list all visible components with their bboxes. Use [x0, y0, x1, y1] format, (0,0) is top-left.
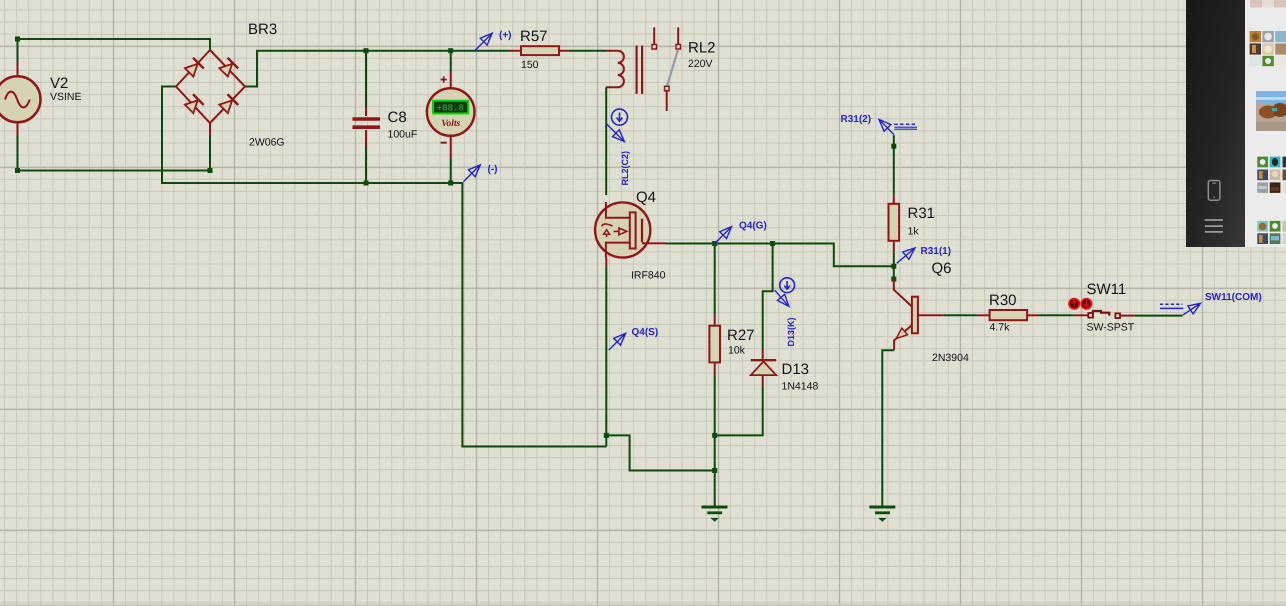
wire Q4 source down [605, 258, 607, 267]
svg-text:IRF840: IRF840 [631, 270, 666, 282]
svg-text:V2: V2 [50, 75, 68, 92]
wire relay coil to Q4 drain [605, 87, 607, 195]
wire bridge bottom pin stub [209, 123, 211, 136]
resistor R31 [889, 204, 900, 241]
Q4 substrate arrow [614, 230, 620, 232]
current probe on D13 wire [780, 278, 795, 293]
wire SW11 to terminal [1120, 315, 1135, 317]
wire V2 bottom pin stub [17, 123, 19, 137]
svg-text:(-): (-) [488, 164, 498, 175]
V2 sine symbol [5, 92, 30, 108]
resistor R31 wires [893, 135, 895, 194]
terminal R31(2) dashed symbol [894, 123, 917, 125]
node ground rail [712, 468, 717, 473]
wire D13 from gate node [763, 246, 773, 350]
voltmeter body [427, 88, 475, 136]
svg-text:R31: R31 [908, 205, 936, 222]
svg-text:RL2: RL2 [688, 40, 716, 57]
node at bridge bottom rail junction [208, 168, 213, 173]
node R31 top [891, 144, 896, 149]
switch SW11 blade [1093, 311, 1109, 316]
resistor R30 right stub [1027, 314, 1039, 316]
thumbnail grid 2 [1257, 157, 1286, 193]
svg-text:R30: R30 [989, 292, 1017, 309]
svg-text:150: 150 [521, 59, 539, 71]
svg-text:VSINE: VSINE [50, 91, 82, 103]
capacitor C8 plates [353, 119, 381, 127]
transistor Q6 collector wire [894, 279, 912, 306]
resistor R57 [521, 46, 559, 55]
node at V2 bottom corner [15, 168, 20, 173]
Q4 channel bar [630, 212, 636, 248]
svg-text:Volts: Volts [441, 119, 460, 129]
node R27 bottom rail [712, 433, 717, 438]
bridge BR3 diamond [176, 50, 245, 123]
svg-text:C8: C8 [388, 109, 407, 126]
diode D13 cathode bar [751, 359, 776, 361]
relay arm pin square [665, 86, 670, 91]
probe arrow D13(K) [775, 290, 788, 305]
svg-text:SW-SPST: SW-SPST [1087, 322, 1135, 334]
svg-text:100uF: 100uF [388, 129, 418, 141]
relay RL2 contact stub right [677, 27, 679, 44]
node gate/D13 [770, 241, 775, 246]
thumbnail grid 3 [1257, 221, 1286, 244]
wire Q4 gate [651, 242, 666, 244]
bridge diode top-right [218, 58, 238, 78]
voltmeter plus sign [441, 76, 447, 82]
node R31 bottom / gate net [891, 264, 896, 269]
relay pin square left [652, 45, 657, 50]
svg-text:4.7k: 4.7k [990, 322, 1011, 334]
SW11 toggle button up [1069, 299, 1079, 309]
svg-text:10k: 10k [728, 345, 746, 357]
svg-text:D13: D13 [782, 361, 810, 378]
node C8 top [364, 48, 369, 53]
voltmeter minus sign [441, 142, 447, 144]
bottom window edge [0, 605, 1286, 606]
svg-text:R31(2): R31(2) [841, 114, 872, 125]
svg-text:BR3: BR3 [248, 21, 277, 38]
diode D13 cathode stub [762, 350, 764, 360]
transistor Q6 bar [912, 297, 918, 334]
relay RL2 core bars [637, 46, 643, 94]
svg-text:Q4(G): Q4(G) [739, 221, 767, 232]
bridge diode bottom-left [184, 94, 204, 114]
switch SW11 left pin [1088, 313, 1093, 318]
label arrow R31(1) [897, 249, 914, 263]
terminal arrow SW11(COM) [1183, 304, 1199, 315]
SW11 toggle button down [1081, 299, 1091, 309]
wire D13 anode to rail [717, 386, 763, 435]
voltmeter wires [450, 51, 452, 183]
resistor R27 wires [714, 246, 716, 315]
svg-text:1N4148: 1N4148 [782, 381, 819, 393]
wire R30 to SW11 [1039, 314, 1073, 316]
wire V2 top pin stub [17, 62, 19, 77]
svg-text:R57: R57 [520, 28, 548, 45]
label arrow Q4(S) [609, 334, 625, 350]
diode D13 triangle [751, 361, 776, 375]
thumbnail column background [1245, 0, 1286, 247]
label arrow Q4(G) [715, 228, 731, 244]
relay switch arm [667, 50, 678, 87]
svg-text:1k: 1k [908, 226, 920, 238]
svg-text:+88.8: +88.8 [437, 102, 465, 113]
terminal SW11(COM) dashed symbol [1160, 303, 1182, 305]
Q4 gate bar [641, 219, 643, 243]
diode D13 anode stub [762, 375, 764, 386]
Q4 body-diode mark [602, 224, 613, 226]
node C8 bottom [364, 181, 369, 186]
svg-text:R27: R27 [727, 327, 755, 344]
node Q4 source junction [604, 433, 609, 438]
hamburger icon [1205, 220, 1223, 232]
svg-text:220V: 220V [688, 58, 713, 70]
wire Q6 emitter to ground [882, 350, 894, 505]
wire Q6 base to R30 [943, 314, 978, 316]
svg-text:2W06G: 2W06G [249, 137, 285, 149]
wire bridge right vertex to positive top rail [245, 51, 510, 87]
Q4 drain internal [606, 202, 630, 218]
relay RL2 coil [606, 51, 624, 88]
wire source node to ground rail [606, 435, 714, 470]
svg-text:RL2(C2): RL2(C2) [620, 151, 630, 186]
resistor R30 [990, 310, 1028, 320]
capacitor C8 wires [365, 51, 367, 183]
svg-text:SW11: SW11 [1087, 281, 1127, 298]
thumbnail grid 1 [1250, 31, 1286, 66]
transistor Q6 base stub [918, 314, 943, 316]
wire V2 top to bridge top rail [18, 39, 211, 62]
wire bridge left vertex to negative rail [162, 87, 606, 447]
transistor Q6 emitter [894, 325, 912, 350]
relay pin square right [676, 45, 681, 50]
Q4 source internal [606, 243, 630, 258]
svg-text:2N3904: 2N3904 [932, 352, 969, 364]
relay RL2 contact stub left [653, 27, 655, 44]
svg-text:(+): (+) [499, 30, 512, 41]
svg-text:D13(K): D13(K) [786, 317, 796, 346]
probe arrow RL2(C2) [606, 124, 623, 141]
phone icon [1208, 181, 1220, 201]
current probe on RL2 coil wire [612, 109, 628, 125]
wire V2 bottom rail to bridge bottom [18, 136, 211, 171]
bridge diode bottom-right [218, 94, 238, 114]
node voltmeter top [448, 48, 453, 53]
Q4 gate internal stub [642, 242, 651, 244]
source V2 circle [0, 76, 41, 122]
resistor R57 wires [510, 50, 569, 52]
resistor R27 [709, 326, 720, 363]
voltmeter display [433, 101, 468, 114]
relay arm bottom stub [666, 91, 668, 111]
ground symbol right [869, 507, 895, 521]
svg-text:R31(1): R31(1) [921, 246, 952, 257]
svg-text:SW11(COM): SW11(COM) [1205, 292, 1262, 303]
node at V2 top corner [15, 37, 20, 42]
ground symbol left [702, 507, 728, 521]
label arrow (+) [474, 34, 491, 51]
svg-text:Q4(S): Q4(S) [632, 327, 659, 338]
overlay window top-right [1186, 0, 1286, 247]
node gate/R27 [712, 241, 717, 246]
terminal arrow R31(2) [880, 120, 894, 134]
node voltmeter bottom [448, 181, 453, 186]
MOSFET Q4 body [595, 202, 650, 257]
bridge diode top-left [184, 58, 204, 78]
large dog photo [1256, 91, 1286, 131]
top sliver photo [1250, 0, 1286, 8]
label arrow (-) [463, 166, 479, 182]
switch SW11 right pin [1115, 313, 1120, 318]
Q6 emitter arrowhead [893, 328, 907, 342]
node Q6 base net [891, 277, 896, 282]
svg-text:Q6: Q6 [932, 260, 952, 277]
svg-text:Q4: Q4 [636, 189, 656, 206]
